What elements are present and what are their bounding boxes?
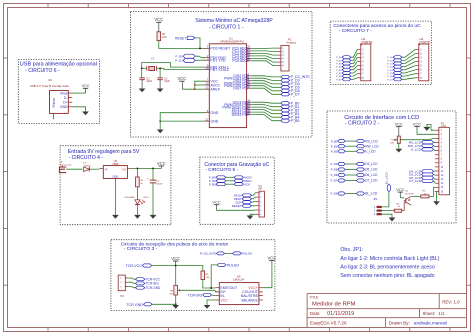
- svg-text:VCC: VCC: [267, 255, 276, 260]
- svg-text:C3: C3: [156, 180, 160, 182]
- wire: [89, 168, 99, 170]
- power flag VCC (USB): [81, 84, 89, 93]
- svg-text:- CIRCUITO 4 -: - CIRCUITO 4 -: [69, 155, 104, 161]
- jumper JP1: [373, 198, 381, 216]
- svg-text:P_D5: P_D5: [331, 168, 338, 172]
- wire: [251, 48, 277, 66]
- svg-text:VCC: VCC: [157, 161, 166, 166]
- ground: [112, 215, 119, 219]
- junction: [210, 287, 212, 289]
- resistor R5 1k: [136, 168, 144, 187]
- wire: [400, 138, 435, 139]
- diode D1 1N4007: [84, 163, 92, 172]
- connector P2 Analog: [277, 38, 296, 71]
- net flag P_D7: [281, 93, 300, 97]
- svg-text:Sistema Minimo uC ATmega328P: Sistema Minimo uC ATmega328P: [195, 18, 273, 24]
- svg-text:REV: 1.0: REV: 1.0: [442, 299, 460, 304]
- svg-text:- CIRCUITO 1 -: - CIRCUITO 1 -: [209, 24, 244, 30]
- net flag pair P_B0-RS_LCD: [331, 139, 379, 143]
- junction: [175, 265, 177, 267]
- svg-text:D6_LCD: D6_LCD: [365, 173, 378, 177]
- svg-text:LED1: LED1: [143, 197, 149, 199]
- svg-text:P_B6: P_B6: [336, 76, 342, 78]
- wire: [211, 265, 217, 288]
- svg-text:TCR-VCC: TCR-VCC: [146, 277, 161, 281]
- connector H1 PORTB: [357, 37, 372, 81]
- svg-text:P_B2: P_B2: [336, 64, 342, 66]
- svg-text:P_B4: P_B4: [336, 70, 342, 72]
- svg-text:D+: D+: [63, 100, 67, 104]
- wire: [176, 266, 203, 272]
- svg-text:Shield: Shield: [52, 98, 56, 107]
- svg-text:P_D5: P_D5: [387, 73, 393, 75]
- junction: [175, 303, 177, 305]
- junction: [199, 47, 201, 49]
- power flag VCC (contrast): [395, 121, 404, 136]
- svg-text:100uF: 100uF: [156, 183, 163, 185]
- net flag RS_LCD: [409, 140, 434, 144]
- power flag VCC (AVCC): [177, 76, 186, 89]
- net flag P_B0: [336, 56, 351, 60]
- wire: [263, 261, 272, 288]
- net flag D4_LCD: [409, 170, 433, 174]
- title block Medidor de RPM: [312, 302, 356, 308]
- wire: [152, 303, 176, 305]
- svg-text:- CIRCUITO 5 -: - CIRCUITO 5 -: [205, 167, 238, 173]
- svg-text:Obs. JP1:: Obs. JP1:: [340, 247, 363, 253]
- svg-text:U0: U0: [48, 78, 52, 82]
- capacitor C3 100uF: [147, 168, 163, 185]
- title CIRCUITO 1: [195, 18, 273, 31]
- wire: [66, 168, 82, 170]
- svg-text:Conectores para acesso ao pino: Conectores para acesso ao pinos do uC: [333, 23, 421, 29]
- potentiometer R6 10K: [169, 285, 180, 295]
- wire: [382, 192, 389, 207]
- wire: [195, 56, 205, 58]
- svg-text:PD1 TXD: PD1 TXD: [210, 59, 226, 63]
- svg-text:1k: 1k: [140, 183, 143, 185]
- svg-text:VCC: VCC: [154, 17, 163, 22]
- svg-text:PULSO: PULSO: [242, 252, 253, 256]
- net flag P_B3: [281, 112, 299, 116]
- svg-text:EasyEDA V5.7.26: EasyEDA V5.7.26: [310, 321, 347, 326]
- svg-text:Circuito de Interface com LCD: Circuito de Interface com LCD: [344, 115, 419, 121]
- wire: [152, 183, 154, 215]
- net flag E_LCD: [411, 148, 434, 152]
- wire: [252, 193, 256, 206]
- title CIRCUITO 4: [68, 149, 140, 161]
- ground: [134, 215, 141, 219]
- wire: [412, 195, 421, 197]
- svg-text:P_D7: P_D7: [387, 79, 393, 81]
- dashed box CIRCUITO 1: [131, 12, 313, 138]
- svg-text:Analog: Analog: [286, 41, 296, 45]
- title block: [307, 294, 466, 328]
- net flag P_D2_INT0: [281, 75, 309, 79]
- svg-text:GND: GND: [210, 119, 218, 123]
- wire: [250, 214, 255, 215]
- svg-text:1/1: 1/1: [438, 311, 445, 316]
- resistor R3 1k: [421, 191, 429, 198]
- ground: [150, 215, 157, 219]
- svg-text:Ra: Ra: [391, 140, 395, 142]
- power flag VCC (R1 pullup): [154, 17, 163, 32]
- dashed box CIRCUITO 3: [111, 240, 275, 311]
- svg-text:EMIT/OUT: EMIT/OUT: [220, 286, 238, 290]
- wire: [182, 81, 205, 89]
- net flag TCR-SIG: [136, 282, 160, 286]
- wire: [131, 167, 161, 169]
- svg-text:- CIRCUITO 6 -: - CIRCUITO 6 -: [25, 68, 60, 74]
- title CIRCUITO 6: [20, 62, 97, 74]
- wire: [136, 187, 138, 200]
- svg-text:C2: C2: [164, 77, 168, 80]
- svg-text:Q1: Q1: [405, 191, 409, 193]
- wire: [402, 49, 416, 79]
- svg-text:P_D2_INT0: P_D2_INT0: [200, 252, 216, 256]
- svg-text:Y1: Y1: [151, 57, 155, 61]
- net flag MISO: [234, 197, 251, 201]
- net flag P_D1: [387, 59, 401, 62]
- net flag P_B4: [281, 116, 299, 120]
- wire: [195, 38, 200, 49]
- svg-text:andrade.manoel: andrade.manoel: [414, 321, 447, 326]
- svg-text:RS_LCD: RS_LCD: [365, 139, 378, 143]
- svg-text:C1: C1: [146, 77, 150, 80]
- wire: [152, 265, 176, 267]
- svg-text:P4: P4: [120, 294, 124, 298]
- dashed box CIRCUITO 5: [200, 157, 274, 224]
- junction: [194, 84, 196, 90]
- svg-text:10K: 10K: [169, 294, 173, 296]
- resistor R2 1k: [394, 203, 401, 212]
- net flag P_B5: [281, 119, 299, 123]
- wire: [434, 171, 435, 183]
- dashed box CIRCUITO 6: [18, 60, 99, 124]
- svg-text:P_D7: P_D7: [331, 179, 338, 183]
- svg-text:1: 1: [374, 206, 376, 209]
- svg-text:R4: R4: [206, 274, 210, 276]
- svg-text:J1: J1: [60, 162, 63, 164]
- svg-text:22pF: 22pF: [164, 80, 170, 83]
- svg-text:P_D0: P_D0: [175, 54, 183, 58]
- net flag RESET: [232, 204, 252, 208]
- wire: [434, 142, 435, 150]
- svg-text:Circuito de recepção dos pulso: Circuito de recepção dos pulsos do eixo …: [121, 241, 229, 247]
- svg-text:P_B7: P_B7: [336, 79, 342, 81]
- title block REV: [442, 299, 460, 304]
- net flag TCR-SIG: [188, 293, 212, 297]
- svg-text:P3: P3: [441, 121, 445, 125]
- svg-text:ATMEGA328P-PU: ATMEGA328P-PU: [220, 39, 244, 43]
- net flag D7_LCD: [409, 179, 433, 183]
- svg-text:- CIRCUITO 2 -: - CIRCUITO 2 -: [345, 121, 380, 127]
- svg-text:P_D3: P_D3: [387, 67, 393, 69]
- wire: [207, 300, 215, 305]
- svg-text:- CIRCUITO 7 -: - CIRCUITO 7 -: [339, 28, 372, 34]
- net flag RESET: [175, 36, 195, 40]
- svg-text:BC327B: BC327B: [405, 193, 414, 195]
- svg-text:PC5 ADC5: PC5 ADC5: [232, 59, 249, 63]
- svg-text:+: +: [147, 177, 149, 180]
- svg-text:Date:: Date:: [310, 311, 321, 316]
- net flag pair P_B4-MISO: [209, 179, 252, 183]
- net flag P_D6: [281, 89, 300, 93]
- svg-text:DIG13 PB5: DIG13 PB5: [232, 113, 249, 117]
- wire: [402, 201, 406, 211]
- net flag RW_LCD: [408, 144, 434, 148]
- wire: [175, 266, 177, 286]
- ground: [157, 130, 164, 134]
- net flag P_B6: [336, 75, 351, 79]
- svg-text:P1: P1: [259, 184, 263, 188]
- svg-text:P_B0: P_B0: [336, 57, 342, 59]
- net flag P_D3: [387, 65, 401, 68]
- ground: [157, 89, 164, 93]
- regulator U2 7805: [99, 159, 131, 183]
- net flag pair P_D7-D7_LCD: [331, 179, 379, 183]
- net flag P_D5: [281, 86, 300, 90]
- svg-text:VCC: VCC: [396, 187, 405, 192]
- svg-text:- CIRCUITO 3 -: - CIRCUITO 3 -: [124, 246, 158, 252]
- wire: [142, 63, 205, 78]
- svg-text:Ao ligar 2-3: BL permanentemen: Ao ligar 2-3: BL permanentemente aceso: [340, 265, 435, 271]
- ground: [247, 216, 254, 220]
- svg-text:AREF: AREF: [210, 88, 220, 92]
- ground: [389, 218, 396, 222]
- net flag P_D4: [387, 68, 401, 72]
- wire: [400, 197, 404, 199]
- net flag P_D2: [387, 62, 401, 66]
- net flag BL_LCD (vertical): [385, 172, 391, 192]
- resistor R1 10K: [157, 32, 167, 41]
- net flag pair P_D3-BL_LCD: [331, 192, 378, 196]
- title CIRCUITO 3: [121, 241, 229, 252]
- svg-text:LM311P: LM311P: [233, 278, 244, 282]
- power flag VCC (ISP): [212, 200, 221, 211]
- svg-text:BAL/STRB: BAL/STRB: [241, 294, 259, 298]
- net flag pair P_D2_INT0-PULSO: [200, 252, 253, 256]
- svg-text:10K: 10K: [206, 277, 210, 279]
- svg-text:P_D2: P_D2: [387, 64, 393, 66]
- dashed box CIRCUITO 4: [60, 146, 171, 225]
- title CIRCUITO 2: [344, 115, 419, 127]
- svg-text:2: 2: [374, 210, 376, 213]
- net flag SCK: [235, 200, 251, 204]
- svg-text:P_D1: P_D1: [387, 60, 393, 62]
- ground: [395, 149, 402, 153]
- connector P1 ISP: [255, 184, 264, 217]
- transistor Q1 BC327B: [405, 191, 414, 206]
- svg-text:Drawn By:: Drawn By:: [389, 321, 410, 326]
- svg-text:Entrada 9V regulagem para 5V: Entrada 9V regulagem para 5V: [68, 149, 140, 155]
- svg-text:Ao ligar 1-2: Micro controla B: Ao ligar 1-2: Micro controla Back Light …: [340, 256, 439, 262]
- svg-text:10K: 10K: [390, 143, 394, 145]
- connector U0 USB 2.0 Type B Female Jack: [30, 78, 73, 119]
- power flag VCC (sensor): [171, 256, 180, 266]
- svg-text:VCC: VCC: [413, 121, 422, 126]
- svg-text:VCC: VCC: [210, 80, 218, 84]
- svg-text:LED-5MM: LED-5MM: [124, 197, 134, 199]
- svg-text:USB para alimentação opcional: USB para alimentação opcional: [20, 62, 97, 68]
- net flag TCR-GND: [126, 303, 152, 307]
- svg-text:P_B4: P_B4: [209, 179, 216, 183]
- net flag P_D3: [281, 79, 300, 83]
- svg-text:IN-: IN-: [220, 294, 226, 298]
- wire: [159, 121, 161, 129]
- svg-text:R5: R5: [140, 180, 144, 182]
- title CIRCUITO 5: [204, 162, 269, 173]
- comparator U4 LM311P: [215, 274, 263, 304]
- wire: [114, 182, 116, 215]
- svg-text:PB7 XTAL2: PB7 XTAL2: [210, 68, 229, 72]
- net flag D5_LCD: [409, 173, 433, 177]
- svg-text:Sem conectar nenhum pino: BL a: Sem conectar nenhum pino: BL apagado: [340, 273, 434, 279]
- svg-text:1k: 1k: [398, 206, 401, 208]
- net flag P_D1: [175, 58, 195, 62]
- net flag P_D0: [387, 56, 401, 60]
- svg-text:Vbus: Vbus: [60, 91, 68, 95]
- svg-text:TCR-VCC: TCR-VCC: [126, 264, 143, 268]
- led LED1 LED-5MM: [124, 197, 149, 204]
- svg-text:P_D0: P_D0: [387, 57, 393, 59]
- svg-text:P_B5: P_B5: [336, 73, 342, 75]
- dashed box CIRCUITO 7: [330, 21, 431, 84]
- svg-text:VCC: VCC: [220, 298, 228, 302]
- svg-text:BL_LCD: BL_LCD: [365, 192, 378, 196]
- ground: [139, 89, 146, 93]
- crystal Y1: [142, 57, 160, 71]
- svg-text:D7_LCD: D7_LCD: [409, 179, 422, 183]
- svg-text:PULSO: PULSO: [227, 263, 240, 267]
- net flag P_D7: [387, 78, 401, 82]
- dashed box CIRCUITO 2: [327, 111, 456, 223]
- title CIRCUITO 7: [333, 23, 421, 34]
- net flag pair P_D6-D6_LCD: [331, 173, 379, 177]
- svg-text:GND: GND: [60, 105, 68, 109]
- net flag D6_LCD: [409, 176, 433, 180]
- ground: [82, 112, 89, 116]
- svg-text:P_B5: P_B5: [291, 119, 300, 123]
- wire: [217, 209, 256, 211]
- note Obs JP1: [340, 247, 439, 279]
- svg-text:P_B1: P_B1: [336, 60, 342, 62]
- svg-text:R2: R2: [397, 203, 401, 205]
- svg-text:TCR-SIG: TCR-SIG: [146, 282, 160, 286]
- net flag TCR-GND: [136, 286, 161, 290]
- svg-text:VCC+: VCC+: [248, 286, 257, 290]
- svg-text:AVCC: AVCC: [210, 83, 220, 87]
- net flag TCR-VCC: [136, 277, 161, 281]
- svg-text:E_LCD: E_LCD: [365, 150, 376, 154]
- svg-text:Sheet:: Sheet:: [423, 311, 436, 316]
- title block Date: [310, 311, 354, 317]
- net flag TCR-VCC: [126, 264, 152, 268]
- net flag P_B4: [336, 68, 351, 72]
- wire: [382, 214, 393, 217]
- svg-text:TCR-GND: TCR-GND: [146, 286, 161, 290]
- power flag VCC (comparator): [267, 255, 276, 260]
- svg-text:RW_LCD: RW_LCD: [365, 144, 379, 148]
- svg-text:VO: VO: [122, 167, 127, 171]
- wire: [72, 92, 85, 94]
- svg-text:P_B3: P_B3: [209, 175, 216, 179]
- svg-text:3: 3: [374, 213, 376, 216]
- svg-text:P_D6: P_D6: [331, 173, 338, 177]
- net flag P_B2: [336, 62, 351, 66]
- connector J1 9V jack: [59, 162, 72, 173]
- ic U1 ATMEGA328P-PU: [205, 36, 252, 127]
- svg-text:P_D7: P_D7: [291, 93, 300, 97]
- svg-text:P_D3: P_D3: [331, 192, 338, 196]
- net flag P_D5: [387, 72, 401, 75]
- svg-text:R3: R3: [423, 191, 427, 193]
- net flag P_B1: [336, 59, 351, 62]
- connector H2 PORTD: [415, 37, 431, 81]
- wire: [136, 205, 138, 215]
- connector P4: [118, 275, 128, 298]
- svg-text:VCC: VCC: [212, 200, 221, 205]
- net flag P_B3: [336, 65, 351, 68]
- svg-text:D7_LCD: D7_LCD: [365, 179, 378, 183]
- svg-text:D-: D-: [64, 96, 68, 100]
- title block Sheet: [423, 311, 446, 316]
- svg-text:VI: VI: [105, 167, 108, 171]
- junction: [136, 167, 154, 169]
- net flag pair P_B2-E_LCD: [331, 150, 376, 154]
- net flag pair P_B5-SCK: [209, 182, 250, 186]
- wire: [251, 102, 281, 121]
- net flag P_B0: [281, 102, 299, 106]
- wire: [251, 76, 281, 95]
- junction: [141, 67, 161, 69]
- wire: [128, 278, 135, 288]
- power flag VCC (Q1): [396, 187, 405, 198]
- svg-text:Conector para Gravação uC: Conector para Gravação uC: [204, 162, 269, 168]
- net flag MOSI: [234, 193, 251, 197]
- connector P3 LCD: [435, 121, 450, 195]
- svg-text:22pF: 22pF: [146, 80, 152, 83]
- svg-text:VCC: VCC: [395, 121, 404, 126]
- svg-text:DIG7 PD7: DIG7 PD7: [233, 87, 249, 91]
- svg-text:JP1: JP1: [373, 198, 378, 201]
- capacitor C2 22pF: [157, 77, 170, 88]
- svg-text:Medidor de RPM: Medidor de RPM: [312, 302, 356, 308]
- wire: [382, 210, 395, 212]
- svg-text:P_D6: P_D6: [387, 76, 393, 78]
- wire: [160, 68, 205, 77]
- svg-text:PC6 RESET: PC6 RESET: [210, 47, 231, 51]
- ground: [172, 305, 179, 309]
- svg-text:SCK: SCK: [244, 182, 250, 186]
- net flag P_D4: [281, 82, 300, 86]
- net flag P_B7: [336, 78, 351, 82]
- svg-text:VCC: VCC: [177, 76, 186, 81]
- svg-text:USB 2.0 Type B Female Jack: USB 2.0 Type B Female Jack: [30, 84, 70, 88]
- wire: [203, 280, 216, 289]
- svg-text:R6: R6: [170, 291, 174, 293]
- ground: [433, 201, 440, 205]
- svg-text:R1: R1: [162, 32, 166, 36]
- svg-text:E_LCD: E_LCD: [411, 148, 422, 152]
- svg-text:VCC: VCC: [81, 84, 89, 88]
- wire: [212, 294, 216, 297]
- svg-text:P_B3: P_B3: [336, 67, 342, 69]
- svg-text:P_B1: P_B1: [331, 144, 338, 148]
- title block Drawn By: [389, 321, 448, 326]
- wire: [427, 124, 435, 130]
- svg-text:TCR-SIG: TCR-SIG: [188, 293, 203, 297]
